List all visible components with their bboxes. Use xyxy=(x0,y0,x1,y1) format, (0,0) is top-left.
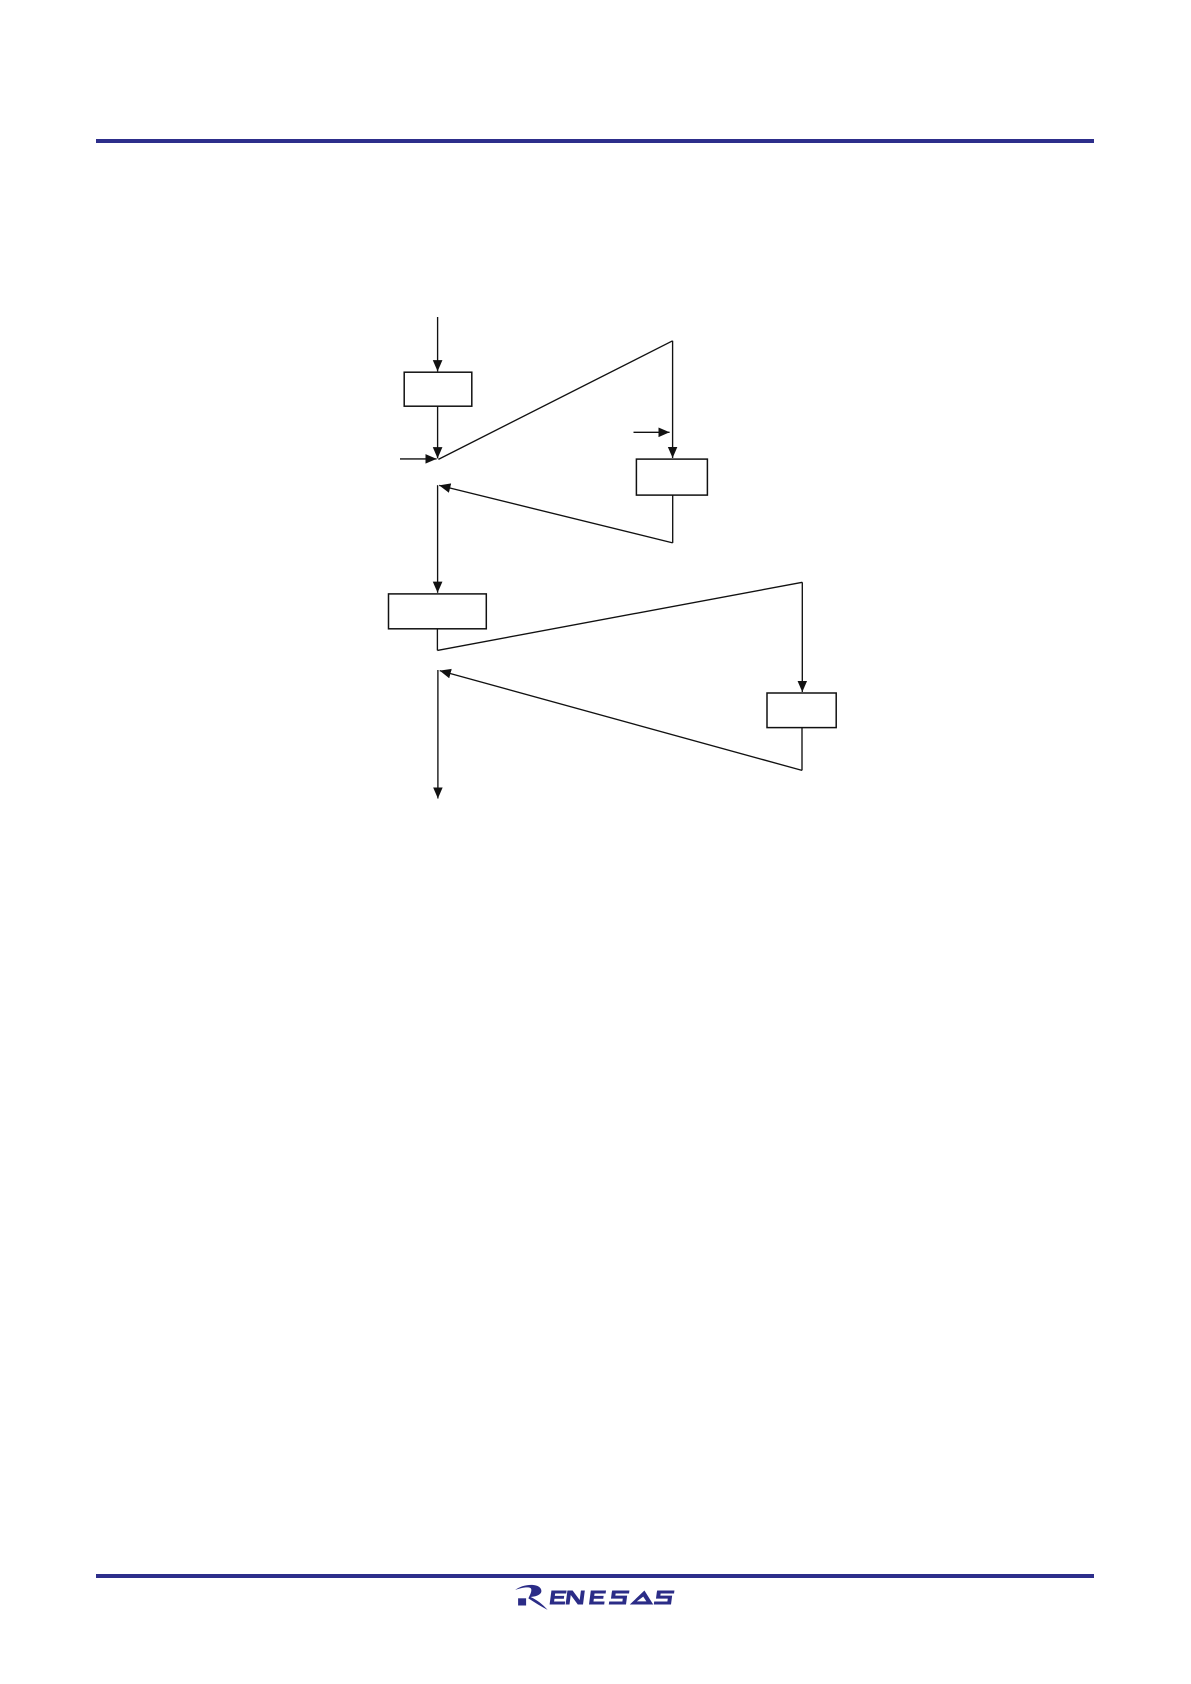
wire: right branch down into box 2 xyxy=(672,341,674,458)
logo square dot xyxy=(518,1598,526,1605)
wire: left re-entry arrow at loop junction xyxy=(400,458,437,460)
logo letter E xyxy=(589,1591,606,1605)
wire: return diagonal from box 2 leg to main line xyxy=(439,485,673,543)
logo letter E xyxy=(550,1591,567,1605)
wire: main line down into box 3 xyxy=(437,485,439,593)
process box 3 xyxy=(389,594,487,629)
wire: final exit arrow xyxy=(437,670,439,799)
Renesas logo xyxy=(512,1583,678,1613)
wire: box 3 descender xyxy=(436,629,438,651)
wire: re-entry arrow into right branch xyxy=(634,431,670,433)
wire: top entry arrow into box 1 xyxy=(437,317,439,371)
logo letter S xyxy=(609,1591,630,1605)
process box 4 xyxy=(767,693,836,728)
logo letter N xyxy=(566,1591,585,1605)
logo letter R xyxy=(515,1585,547,1610)
wire: box 2 descender xyxy=(672,495,674,543)
process box 1 xyxy=(404,372,472,406)
wire: diagonal from junction up to right branch xyxy=(438,341,672,460)
wire: box 4 descender xyxy=(801,728,803,771)
logo letter S xyxy=(654,1591,675,1605)
wire: diagonal up to second right branch xyxy=(437,582,802,650)
wire: box 1 down to loop junction xyxy=(437,407,439,459)
bottom footer rule xyxy=(96,1574,1094,1578)
wire: second right branch down into box 4 xyxy=(801,582,803,692)
logo letter A xyxy=(630,1591,653,1605)
top header rule xyxy=(96,139,1094,143)
wire: return diagonal from box 4 leg to main line xyxy=(440,671,802,771)
process box 2 xyxy=(636,459,707,495)
